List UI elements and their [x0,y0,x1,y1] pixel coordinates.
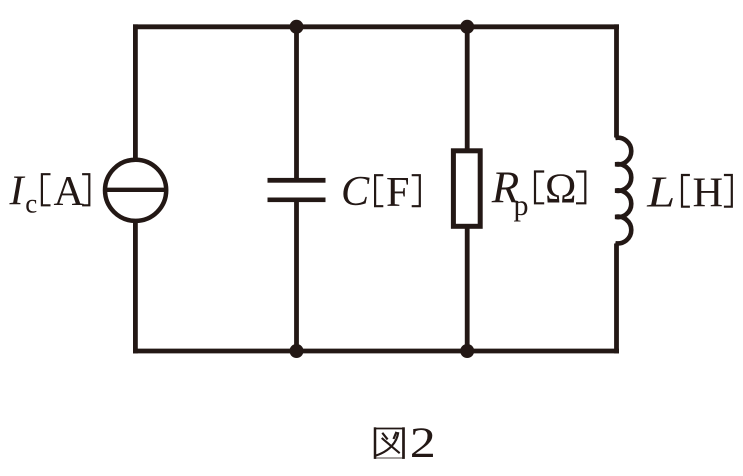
svg-text:p: p [514,189,529,222]
svg-text:2: 2 [410,419,436,467]
svg-text:I: I [9,167,26,214]
svg-text:F: F [386,169,410,216]
svg-text:C: C [341,168,370,215]
svg-text:H: H [693,169,724,216]
svg-text:Ω: Ω [545,165,576,212]
svg-text:c: c [25,189,37,219]
svg-text:L: L [646,168,675,217]
svg-text:A: A [54,168,85,215]
